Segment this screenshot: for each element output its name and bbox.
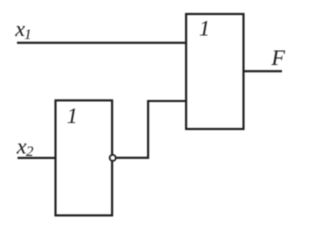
svg-text:F: F: [271, 45, 286, 70]
svg-text:1: 1: [24, 27, 32, 43]
svg-text:1: 1: [67, 103, 78, 128]
svg-text:2: 2: [26, 144, 34, 160]
svg-text:1: 1: [199, 15, 210, 40]
